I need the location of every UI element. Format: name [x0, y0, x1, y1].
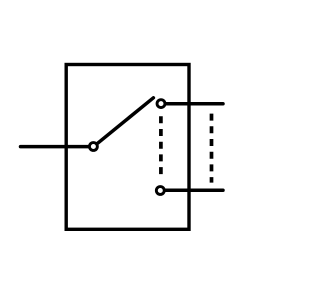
terminal: top throw contact: [157, 100, 165, 108]
dashed mechanical linkage (inner, between contacts): [159, 116, 163, 174]
terminal: common pole contact: [89, 143, 97, 151]
dashed mechanical linkage (outer, right of box): [210, 114, 214, 183]
wire: common pole lead (left): [21, 145, 94, 149]
wire: top throw lead (right): [162, 102, 224, 106]
switch body box S1: [66, 65, 189, 230]
terminal: bottom throw contact: [156, 187, 164, 195]
switch blade (pole lever arm): [95, 98, 154, 146]
wire: bottom throw lead (right): [161, 189, 223, 193]
